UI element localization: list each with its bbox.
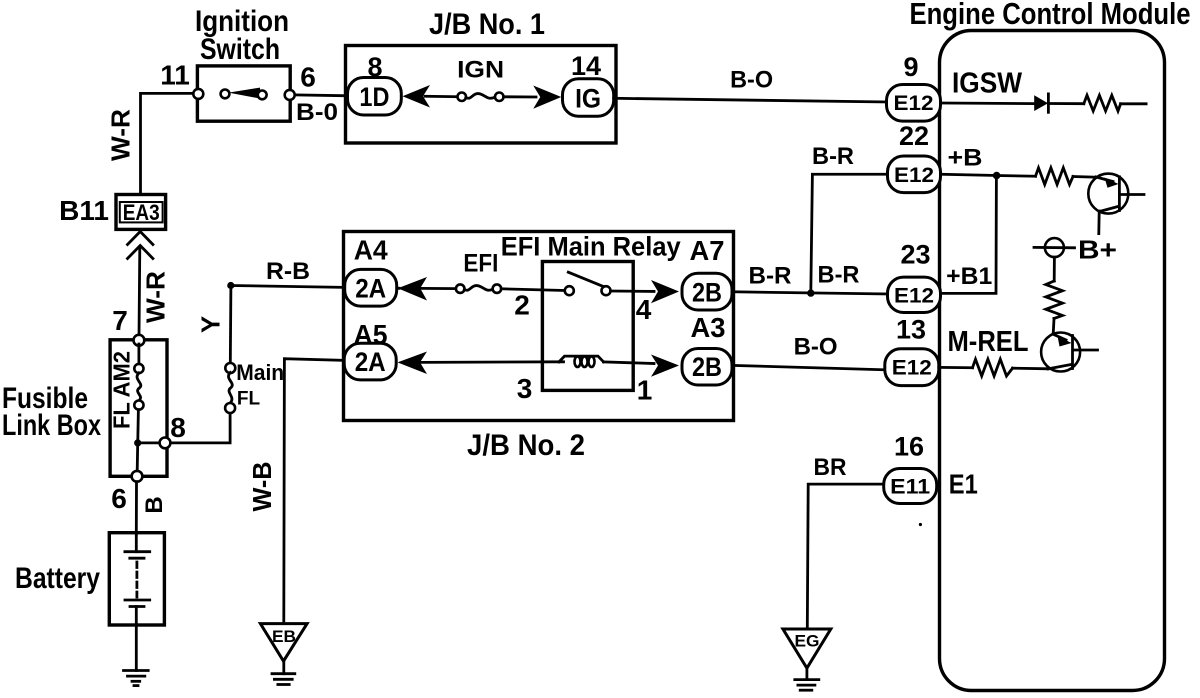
terminal 7 [134,335,145,346]
wire E12-23 to +B vertical [941,176,996,294]
svg-text:EG: EG [795,632,820,651]
wire from terminal 11 to EA3 [141,93,197,194]
wire dot to terminal 6 [136,444,139,471]
Engine Control Module box [940,31,1165,691]
battery box [109,533,164,625]
wire resistor to transistor Q2 [1052,319,1056,335]
svg-text:B11: B11 [59,195,109,226]
svg-text:13: 13 [896,315,926,345]
resistor (IGSW) [1084,95,1121,111]
connector A7 (2B) [682,273,732,310]
wire diode to resistor [1048,102,1083,105]
svg-text:Engine Control Module: Engine Control Module [910,0,1191,31]
transistor Q1 base lead [1121,193,1144,196]
svg-text:R-B: R-B [266,258,310,285]
svg-text:FL AM2: FL AM2 [109,351,135,429]
svg-text:A7: A7 [690,235,725,266]
chevron arrow 2 (to EA3) [128,246,153,259]
connector E12 pin 22 [888,156,941,193]
wire battery to ground [135,607,138,671]
svg-text:W-B: W-B [247,462,277,512]
svg-text:1: 1 [637,375,653,406]
svg-text:E12: E12 [894,92,934,115]
svg-text:EFI Main Relay: EFI Main Relay [501,232,681,262]
svg-text:J/B No. 1: J/B No. 1 [429,8,545,41]
connector E11 pin 16 [884,469,937,504]
wire B-O from A3 to E12 pin 13 [732,365,886,369]
svg-text:W-R: W-R [141,271,171,323]
svg-text:B+: B+ [1078,235,1117,265]
resistor (M-REL) [973,359,1013,376]
svg-text:E12: E12 [894,164,934,187]
svg-text:B: B [141,496,168,513]
black arrow into IG [533,86,561,109]
connector EA3 box [116,195,166,230]
svg-text:+B1: +B1 [946,263,992,290]
svg-text:Link Box: Link Box [2,409,101,442]
ground EG triangle [783,629,831,668]
wire dot to terminal 8 [138,441,160,444]
connector E12 pin 13 [885,349,939,386]
svg-text:E1: E1 [949,468,978,499]
svg-text:8: 8 [170,412,186,443]
wire arrow to IGN fuse [425,95,458,98]
connector A5 (2A) [344,343,396,380]
wire from chevrons down to fusible link box [138,247,142,336]
connector 1D [348,78,402,116]
junction dot +B [993,172,1001,180]
junction dot on B-R wire [807,289,814,296]
fuse EFI [456,284,465,293]
svg-text:B-0: B-0 [296,99,338,126]
svg-text:A4: A4 [354,234,388,265]
svg-text:A3: A3 [691,312,726,343]
ground bars EG [795,678,819,681]
wire terminal 6 to battery [135,482,138,534]
connector E12 pin 9 [887,85,941,122]
svg-text:IGN: IGN [457,57,504,84]
svg-text:7: 7 [112,305,128,336]
relay switch lever [568,272,602,286]
wire EFI fuse into relay [501,289,564,291]
ignition switch lever [229,88,261,99]
speck dot [919,523,922,526]
wire B-O from IG to E12 pin 9 [614,98,888,102]
fusible link FL AM2 [137,344,140,365]
wire arrow to EFI fuse [421,287,457,290]
resistor (+B) [1036,168,1074,185]
resistor (B+) vertical [1046,281,1063,319]
svg-text:J/B No. 2: J/B No. 2 [467,429,585,462]
svg-text:Switch: Switch [200,33,280,66]
wire BR from EG ground to E11 [807,484,885,628]
J/B No.1 box [346,46,617,144]
svg-text:B-R: B-R [818,262,860,289]
svg-text:16: 16 [894,432,924,462]
svg-text:6: 6 [111,483,127,514]
svg-text:9: 9 [903,52,918,82]
black arrow into A5 [398,352,428,375]
svg-text:6: 6 [300,62,316,93]
svg-text:2A: 2A [355,347,386,377]
ignition switch contact right [258,91,267,100]
wire fuse to arrow [504,95,537,98]
ignition switch box [197,66,290,121]
terminal 6 of fusible link box [132,471,143,482]
ground bars EB [272,672,295,675]
wire arrow to relay coil [421,360,564,363]
fuse IGN [458,93,467,102]
transistor Q2 base lead [1074,349,1098,352]
ignition switch terminal 6 [285,90,295,100]
terminal 8 [160,438,171,449]
wire junction up to E12 pin 22 [811,174,889,293]
svg-text:Battery: Battery [15,562,100,595]
J/B No.2 box [344,232,734,421]
svg-text:2B: 2B [692,352,722,382]
svg-text:4: 4 [636,294,652,325]
svg-text:14: 14 [571,51,601,81]
svg-text:23: 23 [900,240,930,270]
relay switch contact left (pin 2) [565,286,574,295]
wire resistor end [1121,102,1147,105]
svg-text:IGSW: IGSW [952,68,1023,100]
wire junction to A4 (R-B) [231,286,399,289]
fusible link box [110,340,167,477]
ignition switch contact left [221,90,230,99]
svg-text:B-O: B-O [730,67,773,94]
svg-text:+B: +B [948,144,983,171]
relay coil [559,356,604,362]
black arrow into 1D [403,85,431,108]
svg-text:Y: Y [196,316,226,333]
relay switch contact right (pin 4) [602,286,611,295]
diode (IGSW) [1034,95,1048,111]
svg-text:2B: 2B [692,277,722,307]
svg-text:EA3: EA3 [123,200,160,225]
svg-text:11: 11 [160,60,190,91]
wire B-R from A7 to E12 pin 23 [732,292,889,294]
svg-text:B-O: B-O [794,334,838,361]
svg-text:FL: FL [237,389,261,410]
B+ terminal circle [1045,238,1064,257]
connector A3 (2B) [682,349,732,386]
wire E12-13 to resistor [939,366,973,369]
connector IG [563,79,614,117]
black arrow into A4 [398,277,427,301]
junction dot node (R-B / Y) [227,282,234,289]
battery cells [135,534,138,552]
ignition switch terminal 11 [193,89,203,99]
black arrow into A3 [651,355,679,377]
svg-text:EFI: EFI [463,249,498,277]
fusible link Main FL [225,363,235,373]
wire relay pin4 to A7 arrow [611,290,655,293]
svg-text:B-R: B-R [749,263,792,290]
svg-text:Main: Main [236,360,284,385]
svg-text:EB: EB [272,627,296,646]
wire E12-22 to junction [941,174,997,175]
svg-text:M-REL: M-REL [948,326,1029,358]
svg-text:E12: E12 [892,357,932,380]
transistor Q1 [1088,174,1128,214]
wire resistor to transistor Q2 collector [1013,367,1049,370]
svg-text:W-R: W-R [106,109,136,161]
ground below battery [124,669,149,672]
svg-text:E12: E12 [894,284,934,307]
chevron arrow 1 (to EA3) [128,232,153,245]
wire junction to resistor [997,174,1036,177]
wire junction down to Main FL [229,286,232,365]
svg-text:2: 2 [514,290,530,321]
svg-text:E11: E11 [890,475,930,498]
svg-text:B-R: B-R [812,143,854,170]
transistor Q2 [1041,333,1080,372]
EFI Main Relay box [542,262,633,391]
svg-text:22: 22 [899,121,929,151]
ground EB triangle [260,624,307,662]
transistor Q1 collector lead down [1097,211,1100,234]
wire terminal 8 to Main FL [170,413,230,443]
junction dot in fusible link box [134,439,141,446]
svg-text:2A: 2A [355,274,386,304]
svg-text:BR: BR [814,454,847,481]
connector A4 (2A) [345,269,397,306]
black arrow into A7 [651,280,679,303]
wire resistor to transistor Q1 [1073,175,1097,178]
svg-text:IG: IG [575,84,601,114]
wire A5 to W-B ground branch [284,359,344,621]
wire from terminal 6 to J/B No.1 [294,94,349,98]
svg-text:3: 3 [517,373,533,404]
connector E12 pin 23 [888,277,941,312]
wire E12-9 to diode [941,102,1035,105]
wire relay pin1 to A3 arrow [604,362,655,364]
wire B+ to resistor [1053,257,1056,281]
svg-text:1D: 1D [359,82,389,112]
